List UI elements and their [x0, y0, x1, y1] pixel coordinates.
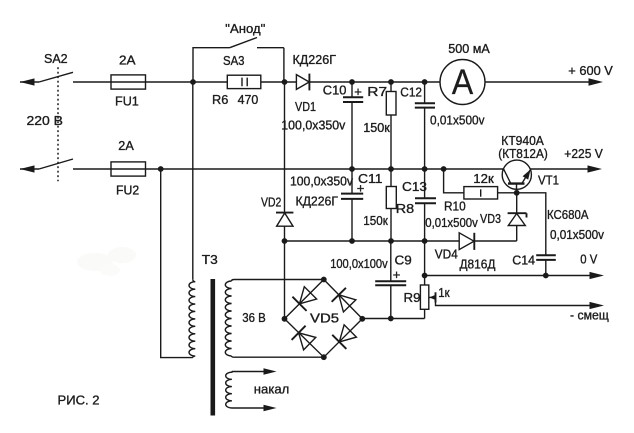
svg-text:470: 470	[238, 92, 259, 107]
svg-text:150к: 150к	[363, 120, 390, 135]
svg-text:+: +	[354, 84, 362, 99]
svg-text:12к: 12к	[473, 171, 494, 186]
svg-text:2A: 2A	[119, 52, 136, 67]
svg-text:C14: C14	[512, 252, 535, 267]
svg-text:накал: накал	[254, 382, 289, 397]
svg-text:КС680А: КС680А	[547, 207, 589, 222]
svg-text:100,0x100v: 100,0x100v	[330, 256, 388, 271]
svg-text:КД226Г: КД226Г	[293, 52, 337, 67]
svg-text:КД226Г: КД226Г	[296, 193, 339, 208]
svg-text:100,0x350v: 100,0x350v	[281, 117, 345, 132]
svg-text:R9: R9	[404, 290, 421, 305]
svg-text:2A: 2A	[118, 138, 134, 153]
svg-text:+: +	[357, 180, 365, 195]
svg-text:C10: C10	[323, 83, 347, 98]
svg-text:VD3: VD3	[480, 211, 501, 226]
svg-text:C9: C9	[395, 252, 412, 267]
svg-text:VD1: VD1	[295, 99, 316, 114]
svg-text:0 V: 0 V	[580, 251, 597, 266]
svg-text:+: +	[393, 267, 401, 282]
svg-text:C13: C13	[402, 179, 427, 194]
svg-text:1к: 1к	[438, 285, 450, 300]
svg-text:(КТ812А): (КТ812А)	[498, 146, 548, 161]
svg-text:R6: R6	[212, 92, 228, 107]
svg-text:R8: R8	[396, 201, 414, 216]
svg-text:VD4: VD4	[435, 246, 458, 261]
svg-text:Д816Д: Д816Д	[460, 257, 496, 272]
svg-text:0,01x500v: 0,01x500v	[430, 113, 485, 128]
svg-text:SA3: SA3	[223, 53, 245, 68]
svg-text:T3: T3	[202, 252, 218, 267]
svg-text:VT1: VT1	[538, 172, 559, 187]
svg-text:РИС. 2: РИС. 2	[58, 393, 100, 408]
svg-text:0,01x500v: 0,01x500v	[425, 215, 478, 230]
svg-text:150к: 150к	[363, 213, 388, 228]
svg-text:"Анод": "Анод"	[225, 21, 265, 36]
svg-text:0,01x500v: 0,01x500v	[550, 227, 604, 242]
svg-text:220 В: 220 В	[27, 113, 64, 128]
svg-text:- смещ: - смещ	[570, 307, 609, 322]
svg-text:36 В: 36 В	[242, 310, 265, 325]
svg-text:C12: C12	[400, 84, 422, 99]
svg-text:500 мА: 500 мА	[448, 41, 490, 56]
svg-text:+ 600 V: + 600 V	[568, 63, 613, 78]
svg-text:FU2: FU2	[116, 183, 139, 198]
svg-text:A: A	[452, 62, 474, 102]
svg-text:R7: R7	[367, 84, 387, 99]
svg-text:SA2: SA2	[44, 51, 68, 66]
svg-text:VD5: VD5	[310, 310, 339, 325]
svg-text:VD2: VD2	[261, 195, 281, 210]
svg-text:+225 V: +225 V	[564, 146, 603, 161]
svg-text:R10: R10	[444, 199, 466, 214]
svg-text:100,0x350v: 100,0x350v	[290, 174, 353, 189]
svg-text:FU1: FU1	[115, 93, 139, 108]
